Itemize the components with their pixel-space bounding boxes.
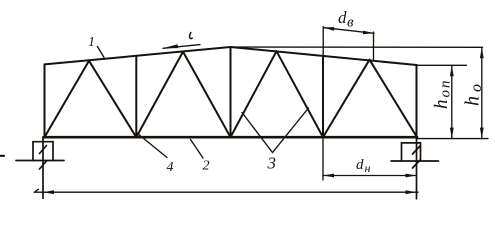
dimension line h_op	[451, 65, 453, 138]
slope arrow i	[163, 45, 200, 49]
left support axis line	[42, 137, 44, 198]
ridge level reference line	[231, 46, 483, 48]
diagonal D3	[136, 52, 183, 138]
extension line at node B3	[322, 138, 324, 180]
bottom chord	[44, 136, 418, 139]
right axis break mark upper	[413, 146, 421, 154]
svg-text:1: 1	[88, 35, 95, 50]
diagonal D6	[277, 51, 324, 137]
leader line for label 4	[136, 133, 167, 158]
diagonal D7	[323, 60, 370, 138]
label i	[190, 33, 193, 39]
svg-text:2: 2	[203, 159, 210, 174]
top chord right slope	[231, 47, 417, 65]
right end post	[416, 65, 418, 137]
leader line for label 2	[191, 140, 204, 159]
left axis break mark upper	[40, 146, 47, 154]
leader line for label 1	[98, 47, 105, 58]
right support pedestal	[402, 143, 421, 161]
dimension line d_n (bottom panel)	[323, 175, 417, 177]
svg-text:hо: hо	[462, 80, 486, 106]
span dimension line	[34, 191, 418, 193]
svg-text:dв: dв	[338, 8, 354, 31]
left end post	[44, 64, 46, 137]
diagonal D2	[89, 61, 136, 137]
dimension line h_o	[481, 47, 483, 138]
top chord left slope	[45, 47, 231, 64]
tick at span line left end	[36, 189, 39, 191]
right support ground line	[391, 160, 439, 162]
diagonal D1	[45, 61, 90, 137]
vertical post at node B1	[135, 56, 137, 137]
dimension line d_v (top panel, slanted)	[323, 28, 374, 34]
right support axis line	[416, 137, 418, 199]
top chord level reference line	[417, 64, 467, 66]
scan artifact dash at left edge	[0, 155, 4, 157]
extension line d_v left	[322, 27, 324, 56]
vertical post at node B3	[322, 56, 324, 138]
right axis break mark lower	[413, 160, 421, 168]
leader lines for label 3	[242, 108, 309, 153]
left support pedestal	[33, 142, 53, 161]
diagonal D5	[231, 51, 277, 137]
diagonal D4	[183, 52, 231, 138]
svg-text:hоп: hоп	[431, 79, 454, 110]
diagonal D8	[370, 60, 418, 138]
bottom chord level reference line	[417, 138, 488, 140]
svg-text:3: 3	[267, 154, 277, 173]
left axis break mark lower	[40, 161, 47, 169]
center vertical post at ridge	[230, 47, 232, 137]
svg-text:4: 4	[167, 160, 174, 175]
extension line d_v right	[373, 32, 375, 61]
left support ground line	[16, 160, 64, 162]
svg-text:dн: dн	[356, 157, 371, 175]
